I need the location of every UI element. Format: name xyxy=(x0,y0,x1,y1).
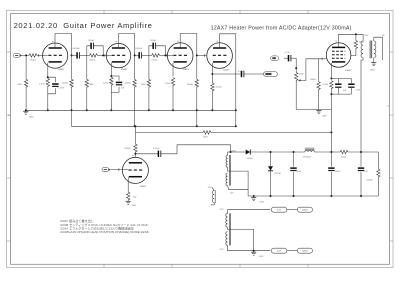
svg-text:GND: GND xyxy=(322,116,327,118)
node V4 cathode xyxy=(211,73,213,75)
svg-text:120kΩ: 120kΩ xyxy=(310,79,317,81)
svg-text:DIODE: DIODE xyxy=(275,173,282,175)
diode D1 rectifier xyxy=(246,150,250,155)
node R3 bottom on ground bus xyxy=(71,109,73,111)
wire between pills row1 xyxy=(287,209,298,211)
potentiometer VR1 50k volume xyxy=(295,68,297,72)
tube V6 12AX7 effects stage xyxy=(122,157,148,183)
capacitor C6 820pF bright cap 2 xyxy=(149,46,153,56)
svg-text:10uF: 10uF xyxy=(297,171,302,173)
tube V2 12AX7 second stage xyxy=(106,43,130,67)
svg-text:1.5kΩ: 1.5kΩ xyxy=(164,83,170,85)
svg-text:GND: GND xyxy=(259,256,264,258)
effects input jack J2 xyxy=(102,168,109,172)
wire cathode bottom down to line C and B+ xyxy=(330,94,332,152)
node return gnd tap xyxy=(253,195,255,197)
resistor R10 1M grid leak V3 xyxy=(148,55,150,79)
wire J2 to V6 grid xyxy=(111,169,128,171)
node screen tap xyxy=(355,33,357,35)
capacitor C1 cathode bypass xyxy=(48,77,56,82)
svg-text:A: A xyxy=(8,114,10,117)
svg-text:1kΩ: 1kΩ xyxy=(133,197,137,199)
power transformer T2 HV winding lower xyxy=(226,173,228,185)
node return C14 xyxy=(360,195,362,197)
svg-text:12AX7: 12AX7 xyxy=(121,68,128,71)
wire primary bottom to B plus xyxy=(362,58,364,60)
svg-text:DIODE: DIODE xyxy=(247,158,254,160)
power stage ground rail xyxy=(296,109,331,111)
node V2 cathode xyxy=(110,75,112,77)
secondary ground lead xyxy=(373,58,375,63)
svg-text:12V: 12V xyxy=(208,187,212,189)
node R13 ground xyxy=(211,109,213,111)
capacitor C12 10uF filter xyxy=(293,152,295,167)
svg-text:2.2kΩ: 2.2kΩ xyxy=(103,83,109,85)
tube V1 12AX7 first stage xyxy=(43,43,68,68)
diode D2 shunt xyxy=(270,152,272,166)
ground symbol main xyxy=(23,110,28,112)
svg-text:GND: GND xyxy=(132,205,137,207)
node V1 cathode ground xyxy=(47,109,49,111)
svg-text:1MΩ: 1MΩ xyxy=(141,84,146,86)
svg-text:1uF: 1uF xyxy=(343,90,347,92)
wire LV winding bottom xyxy=(228,186,249,190)
pot wiper wire to grid xyxy=(301,59,322,81)
wire cathode network top xyxy=(331,78,351,80)
node C12 top xyxy=(293,151,295,153)
ground symbol speaker xyxy=(371,62,376,64)
capacitor C7 0.47uF output coupling xyxy=(212,73,241,75)
tube V5 12AX7 power stage xyxy=(326,43,351,68)
resistor R8 2.2k cathode V2 xyxy=(110,77,113,85)
heater transformer T3 winding 1 xyxy=(226,214,228,228)
resistor R11 240k plate load V3 xyxy=(196,55,198,79)
power amp input jack xyxy=(271,56,279,61)
svg-text:0.47uF: 0.47uF xyxy=(153,148,160,150)
node return diode xyxy=(270,195,272,197)
svg-text:220kΩ: 220kΩ xyxy=(125,83,132,85)
svg-text:0.033uF: 0.033uF xyxy=(135,48,143,50)
input jack J1 xyxy=(13,53,20,57)
V5 plate lead to transformer xyxy=(339,34,364,47)
node R11 bus A xyxy=(196,109,198,111)
svg-text:470kΩ: 470kΩ xyxy=(89,60,96,62)
resistor R21 100k bleeder xyxy=(377,152,379,169)
svg-text:470kΩ: 470kΩ xyxy=(30,59,37,61)
capacitor C14 1uF filter xyxy=(360,152,362,167)
resistor R2 1M grid leak xyxy=(25,55,27,79)
resistor R16 1k cathode V6 xyxy=(126,192,129,200)
resistor R15 180k plate load V6 xyxy=(134,144,137,152)
heater label pill 6.3V row2 xyxy=(271,248,287,253)
resistor R18 200 screen xyxy=(355,34,357,40)
svg-text:100uF: 100uF xyxy=(335,171,342,173)
V1 cathode lead xyxy=(47,63,49,77)
svg-text:1MΩ: 1MΩ xyxy=(17,84,22,86)
resistor R6 1M grid leak V2 xyxy=(86,55,88,79)
svg-text:1uF: 1uF xyxy=(364,171,368,173)
V4 plate lead and loop to bus xyxy=(220,34,236,126)
svg-text:0.47uF: 0.47uF xyxy=(238,71,245,73)
tube V4 12AX7 cathode follower xyxy=(207,43,233,69)
ground return line xyxy=(248,195,378,197)
svg-text:GND: GND xyxy=(29,116,34,118)
svg-text:10kΩ: 10kΩ xyxy=(203,137,208,139)
node V2 cathode ground xyxy=(110,109,112,111)
output transformer T1 primary xyxy=(362,34,364,41)
svg-text:6.3V: 6.3V xyxy=(220,249,225,251)
ground bus wire A xyxy=(26,109,236,111)
svg-text:8Ω: 8Ω xyxy=(382,35,385,37)
wire HV top to B plus line xyxy=(228,152,231,155)
svg-text:180kΩ: 180kΩ xyxy=(124,148,131,150)
heater wire row 1 xyxy=(228,210,271,214)
svg-text:6.3V: 6.3V xyxy=(220,209,225,211)
svg-text:12AX7: 12AX7 xyxy=(58,68,65,71)
V6 cathode lead xyxy=(127,177,129,192)
svg-text:12AX7: 12AX7 xyxy=(302,250,309,253)
ground symbol V6 xyxy=(126,200,131,202)
V2 cathode lead xyxy=(110,63,112,77)
heater center tap wires xyxy=(228,227,254,251)
resistor R9 470k in signal line 2 xyxy=(149,54,152,56)
node heater row2 tap xyxy=(253,250,255,252)
svg-text:50kΩ: 50kΩ xyxy=(299,73,304,75)
svg-text:1.2uF: 1.2uF xyxy=(284,52,290,54)
node line C to PSU xyxy=(330,131,332,133)
choke L1 xyxy=(305,147,315,149)
resistor R5 470k in signal line xyxy=(87,54,90,56)
svg-text:2021.02.20 Guitar Power Ampli: 2021.02.20 Guitar Power Amplifire xyxy=(14,21,153,30)
resistor R14 10k dropper xyxy=(203,131,211,134)
svg-text:GND: GND xyxy=(370,70,375,72)
heater wire row 2 xyxy=(228,245,271,250)
V1 plate lead and loop xyxy=(55,34,72,56)
svg-text:100kΩ: 100kΩ xyxy=(366,180,373,182)
svg-text:10kΩ: 10kΩ xyxy=(341,157,346,159)
B plus line xyxy=(231,151,246,153)
frame zone tick marks xyxy=(103,10,105,13)
svg-text:240kΩ: 240kΩ xyxy=(187,84,194,86)
node R10 ground xyxy=(148,109,150,111)
svg-text:GND: GND xyxy=(259,202,264,204)
node R7 bottom bus B xyxy=(134,125,136,127)
node R11 bus B xyxy=(196,125,198,127)
svg-text:1.1kΩ: 1.1kΩ xyxy=(39,84,45,86)
power transformer core lines xyxy=(228,155,230,186)
svg-text:820pF: 820pF xyxy=(88,40,95,42)
preamp output jack xyxy=(264,72,278,77)
node C8 feed xyxy=(230,151,232,153)
svg-text:1MΩ: 1MΩ xyxy=(89,84,94,86)
grid tick V2 xyxy=(104,54,106,57)
V3 plate lead and loop xyxy=(180,34,197,56)
power transformer T2 HV winding upper xyxy=(226,155,228,167)
wire cathode network bottom xyxy=(330,88,332,94)
svg-text:6.3V: 6.3V xyxy=(277,210,282,212)
svg-text:470kΩ: 470kΩ xyxy=(151,60,158,62)
ground symbol power stage xyxy=(316,110,321,112)
node ground bus left end xyxy=(25,109,27,111)
svg-text:220kΩ: 220kΩ xyxy=(62,83,69,85)
node input junction xyxy=(25,54,27,56)
capacitor C2 0.033uF coupling xyxy=(72,54,77,56)
grid tick V5 xyxy=(321,58,323,61)
V5 cathode lead xyxy=(330,63,332,79)
node V5 cathode bottom xyxy=(330,93,332,95)
resistor R1 68k grid stopper xyxy=(29,54,37,57)
grid tick V3 xyxy=(166,54,168,57)
svg-text:02/28GAIN UP(GRID LEAK POSITIO: 02/28GAIN UP(GRID LEAK POSITION CHANGE) … xyxy=(61,230,149,234)
V3 cathode lead xyxy=(172,63,174,77)
resistor R20 10k filter xyxy=(340,150,348,153)
svg-text:0.033uF: 0.033uF xyxy=(72,48,80,50)
capacitor C10 1uF cathode bypass xyxy=(337,79,339,84)
wire secondary top to speaker out xyxy=(374,37,383,60)
heater transformer core xyxy=(228,213,230,245)
tube V3 12AX7 third stage xyxy=(167,43,193,69)
svg-text:12AX7: 12AX7 xyxy=(140,185,147,188)
wire to volume pot xyxy=(295,58,297,68)
heater label pill 12AX7 row1 xyxy=(297,207,312,212)
node V2 plate junction xyxy=(134,54,136,56)
svg-text:820pF: 820pF xyxy=(151,40,158,42)
capacitor C11 22uF cathode bypass xyxy=(350,79,352,84)
node return C12 xyxy=(293,195,295,197)
node bus A right end xyxy=(235,109,237,111)
svg-text:22uF: 22uF xyxy=(356,90,361,92)
output transformer secondary xyxy=(374,41,376,58)
resistor R3 220k plate load xyxy=(71,55,73,79)
node bus B mid xyxy=(134,125,136,127)
svg-text:12AX7: 12AX7 xyxy=(345,69,352,72)
line C B+ feed wire xyxy=(134,126,136,132)
capacitor C13 100uF filter xyxy=(330,152,332,167)
bus B wire xyxy=(72,110,236,126)
winding interconnect box xyxy=(228,167,249,196)
ground symbol PSU xyxy=(251,197,256,199)
node V5 cathode xyxy=(330,78,332,80)
svg-text:0.47uF: 0.47uF xyxy=(58,88,65,90)
node D2 top xyxy=(270,151,272,153)
grid tick V6 xyxy=(118,168,120,171)
svg-text:12AX7: 12AX7 xyxy=(183,68,190,71)
resistor R12 1.5k cathode V3 xyxy=(171,78,174,86)
node V3 cathode ground xyxy=(172,109,174,111)
svg-text:6.3V: 6.3V xyxy=(277,251,282,253)
resistor R13 100k cathode follower load xyxy=(211,74,213,83)
svg-text:1uF: 1uF xyxy=(121,88,125,90)
node V3 plate junction xyxy=(196,54,198,56)
wire input to grid xyxy=(22,54,29,56)
node B plus to OT xyxy=(360,151,362,153)
capacitor C9 1.2uF input xyxy=(284,57,288,59)
heater transformer T3 winding 2 xyxy=(226,232,228,246)
node choke out xyxy=(330,151,332,153)
capacitor C3 820pF bright cap xyxy=(87,46,91,56)
ground symbol heater xyxy=(251,251,256,253)
output transformer core xyxy=(369,41,371,59)
svg-text:100kΩ: 100kΩ xyxy=(215,87,222,89)
node V6 plate junction xyxy=(134,153,136,155)
resistor R19 5.7k cathode V5 xyxy=(330,81,333,89)
V4 cathode lead xyxy=(211,63,213,74)
capacitor C8 0.47uF to B+ line xyxy=(135,153,158,155)
node R6 ground xyxy=(86,109,88,111)
grid tick V1 xyxy=(37,54,39,57)
svg-text:12AX7: 12AX7 xyxy=(223,68,230,71)
node grid V2 xyxy=(102,54,104,56)
resistor R4 1.1k cathode xyxy=(46,78,49,86)
node return C13 xyxy=(330,195,332,197)
wire between pills row2 xyxy=(287,250,298,252)
svg-text:4H 200Ω: 4H 200Ω xyxy=(303,157,311,159)
node pot top xyxy=(295,67,297,69)
node V1 plate junction xyxy=(71,54,73,56)
grid tick V4 xyxy=(204,54,206,57)
heater label pill 12AX7 row2 xyxy=(297,248,312,253)
heater label pill 6.3V row1 xyxy=(271,207,287,212)
V2 plate lead and loop xyxy=(119,34,135,56)
svg-text:12AX7 Heater Power from AC/DC: 12AX7 Heater Power from AC/DC Adapter(12… xyxy=(211,26,352,32)
wire bus B down to V6 plate resistor xyxy=(134,132,136,144)
capacitor C5 0.033uF coupling 2 xyxy=(135,54,139,56)
svg-text:12AX7: 12AX7 xyxy=(302,209,309,212)
wire V3 out to V4 grid xyxy=(197,54,207,56)
svg-text:5.7kΩ: 5.7kΩ xyxy=(322,84,328,86)
resistor R7 220k plate load V2 xyxy=(134,55,136,79)
node V1 cathode junction xyxy=(47,76,49,78)
node grid V3 xyxy=(164,54,166,56)
node bus B right end xyxy=(235,125,237,127)
svg-text:12V: 12V xyxy=(230,193,234,195)
resistor R17 120k grid leak V5 xyxy=(318,59,320,82)
capacitor C4 cathode bypass V2 xyxy=(111,76,119,81)
svg-text:SEC: SEC xyxy=(365,35,370,37)
